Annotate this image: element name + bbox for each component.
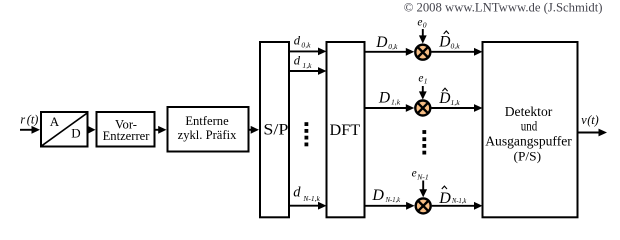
svg-text:0: 0	[423, 20, 427, 29]
svg-text:(t): (t)	[27, 113, 39, 127]
svg-text:(t): (t)	[587, 113, 599, 127]
svg-text:D: D	[438, 34, 450, 51]
svg-text:e: e	[418, 72, 423, 84]
svg-text:1,k: 1,k	[391, 98, 401, 107]
svg-text:1,k: 1,k	[451, 98, 461, 107]
svg-text:zykl. Präfix: zykl. Präfix	[178, 128, 237, 142]
svg-text:D: D	[378, 89, 390, 106]
svg-text:Entzerrer: Entzerrer	[103, 129, 151, 143]
svg-text:d: d	[293, 185, 301, 201]
svg-text:r: r	[20, 112, 25, 126]
svg-text:N-1: N-1	[416, 173, 429, 182]
svg-text:(P/S): (P/S)	[514, 150, 542, 164]
svg-text:e: e	[412, 168, 417, 180]
svg-text:e: e	[417, 16, 422, 28]
svg-text:A: A	[50, 114, 60, 129]
svg-text:N-1,k: N-1,k	[385, 195, 401, 204]
svg-text:0,k: 0,k	[301, 41, 311, 50]
svg-text:d: d	[294, 54, 301, 68]
svg-text:Detektor: Detektor	[505, 104, 553, 119]
svg-text:1: 1	[424, 76, 428, 85]
svg-text:D: D	[71, 125, 80, 140]
svg-text:S/P: S/P	[263, 121, 288, 138]
svg-text:D: D	[375, 34, 387, 51]
svg-text:0,k: 0,k	[388, 42, 398, 51]
svg-text:DFT: DFT	[330, 121, 361, 139]
svg-text:D: D	[438, 90, 450, 107]
svg-text:1,k: 1,k	[302, 61, 312, 70]
svg-text:0,k: 0,k	[451, 42, 461, 51]
svg-text:und: und	[521, 119, 538, 134]
svg-text:© 2008 www.LNTwww.de (J.Schmid: © 2008 www.LNTwww.de (J.Schmidt)	[404, 0, 603, 14]
svg-text:Ausgangspuffer: Ausgangspuffer	[485, 134, 572, 149]
svg-text:D: D	[371, 187, 384, 204]
svg-text:D: D	[438, 190, 451, 207]
svg-text:N-1,k: N-1,k	[302, 194, 320, 203]
svg-text:N-1,k: N-1,k	[451, 196, 466, 205]
svg-text:d: d	[294, 33, 301, 47]
svg-text:Entferne: Entferne	[185, 114, 229, 128]
